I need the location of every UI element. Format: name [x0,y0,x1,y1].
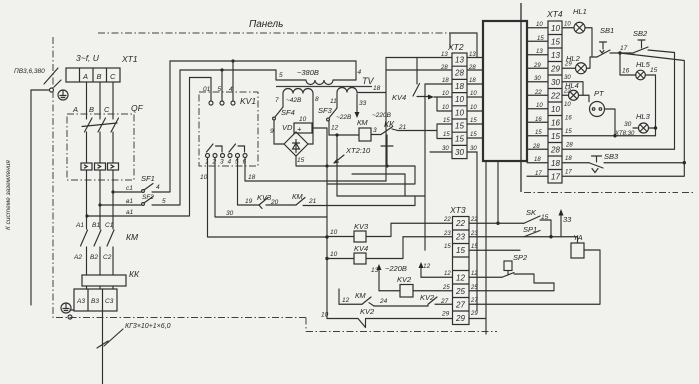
node junction 684 row18 [683,161,686,164]
svg-text:15: 15 [297,157,305,164]
wire SF4 to bridge left [274,120,284,144]
relay KV1 contact group B blade [229,144,236,152]
wire ground to terminal box [70,309,74,311]
wire XT3 22 right to SK [469,222,524,224]
svg-text:22: 22 [550,92,560,101]
node XT4 right wire labels [563,22,573,176]
node KV1 bottom pin 3 [221,154,225,158]
svg-text:22: 22 [443,217,451,223]
svg-text:13: 13 [371,267,379,274]
svg-text:29: 29 [470,311,478,317]
svg-text:Панель: Панель [249,19,283,30]
wire HL1 to SB1 drop [585,28,592,57]
svg-text:10: 10 [330,229,338,236]
thermal contact KK [381,127,393,146]
svg-text:SB1: SB1 [600,26,614,35]
lamp HL1 [574,22,585,33]
svg-text:15: 15 [443,132,450,138]
svg-text:КГ3×10+1×6,0: КГ3×10+1×6,0 [125,323,171,330]
node KV1 top pin 4 [231,101,235,105]
svg-text:27: 27 [470,298,478,304]
wire row 27 to XT3 [435,303,452,305]
wire minus output row [296,156,387,166]
wire XT2 28 feed [386,69,452,71]
wire phase C drop XT1 to QF [112,82,114,119]
svg-text:15: 15 [551,38,560,47]
svg-text:30: 30 [470,146,477,152]
svg-text:18: 18 [469,78,476,84]
wire phase B drop XT1 to QF [99,82,101,119]
breaker SF3 [327,108,337,121]
svg-text:В1: В1 [92,222,100,229]
solenoid YA [571,243,584,258]
node junction bus1 [231,59,234,62]
wire row 28 [562,148,675,150]
wire row 18 [245,180,386,182]
svg-text:7: 7 [275,97,279,104]
svg-text:5: 5 [279,72,283,79]
svg-text:XT4: XT4 [546,9,563,19]
wire panel left dashed boundary [52,37,54,318]
node XT2 left wire labels [440,52,450,152]
wire SF1 to bus1 riser [152,61,170,192]
wire KV1 pin5 drop [237,158,239,206]
svg-text:KV1: KV1 [240,96,256,106]
svg-text:18: 18 [455,82,464,91]
svg-text:КМ: КМ [355,291,366,300]
wire b1 row [100,204,141,206]
wire bus1 to KV1 pin 4 [232,61,234,101]
svg-text:10: 10 [200,174,208,181]
svg-text:C: C [110,72,116,81]
relay KV1 enclosure [199,92,258,166]
svg-text:XT8:30: XT8:30 [614,131,635,137]
wire KV3 coil to XT3 22 [366,223,452,236]
wire riser row 27 [338,289,340,304]
relay KV1 contact group A bar [216,146,223,152]
contactor KM pole A [81,230,88,246]
wire KK hook drop to minus row [386,146,388,166]
svg-text:PT: PT [594,89,605,98]
wire XT3 12 right to SP2 [469,276,502,278]
node KV1 bottom pin 4 [228,154,232,158]
wire row 10 [208,236,328,238]
svg-text:~42В: ~42В [286,97,302,104]
node junction PT row15 [613,134,616,137]
wire XT4 10 to HL1 [562,27,574,29]
svg-text:10: 10 [442,91,449,97]
wire phase A KM to KK [86,247,88,275]
wire row 18 to SB3 [562,162,589,164]
svg-text:A: A [72,105,78,114]
svg-text:QF: QF [131,103,144,113]
svg-text:10: 10 [442,105,449,111]
contact KV2 aux row27 [428,297,437,304]
svg-text:12: 12 [423,263,431,270]
svg-text:15: 15 [471,244,478,250]
breaker QF thermal element A [81,163,92,170]
node junction b1 [98,203,101,206]
wire phase C KM to KK [112,247,114,275]
svg-text:18: 18 [248,174,256,181]
svg-text:В3: В3 [91,298,99,305]
wire link row174 [352,174,405,196]
wire phase B KM to KK [99,247,101,275]
wire KV2 coil to XT3 25 [413,290,452,292]
svg-text:28: 28 [565,143,573,149]
wire XT2 18 feed riser [425,84,452,250]
contact SP1 [524,231,540,237]
contact KM aux [296,198,305,206]
svg-text:30: 30 [534,76,541,82]
svg-text:SP2: SP2 [513,253,528,262]
wire row 15 [562,135,656,137]
svg-text:30: 30 [624,121,632,128]
svg-text:SF3: SF3 [318,106,333,115]
svg-text:30: 30 [226,210,234,217]
svg-text:4: 4 [358,69,362,76]
wire arrow 13 riser [378,268,380,291]
svg-text:21: 21 [308,198,317,205]
wire row 30 [215,216,327,218]
svg-text:10: 10 [455,108,464,117]
wire arrow 12 riser [420,266,422,277]
wire junction to SB2 [622,52,634,54]
svg-text:12: 12 [444,271,451,277]
svg-text:29: 29 [441,311,450,318]
svg-text:9: 9 [270,128,274,135]
svg-text:25: 25 [470,285,478,291]
wire arrow 12 to XT3 12 [421,276,452,278]
svg-text:+: + [297,125,302,134]
wire c1 row [113,191,141,193]
wire XT3 15 right stub [469,249,520,251]
wire loop above XT2 [450,33,477,58]
svg-text:HL4: HL4 [565,81,579,90]
svg-text:с1: с1 [126,185,133,192]
wire pin11 drop [336,93,338,109]
svg-text:18: 18 [551,159,560,168]
svg-text:XT3: XT3 [449,205,466,215]
svg-text:KV2: KV2 [397,275,412,284]
node junction bus2 [220,68,223,71]
breaker SF1 [142,184,153,193]
svg-text:22: 22 [470,217,478,223]
wire KM coil to KK contact [371,134,381,136]
wire SB2 to drop 674 [648,50,675,149]
node XT2 terminal numbers [454,56,464,157]
wire arrow 33 down from winding [356,94,358,114]
svg-text:17: 17 [620,45,628,52]
rectifier plus terminal box [294,123,312,134]
wire PT to row 15 [605,109,616,136]
pushbutton SB2 [634,40,648,53]
svg-text:19: 19 [245,198,253,205]
wire arrow 33 riser [560,214,562,237]
transformer TV secondary 42V winding [283,89,313,94]
svg-text:15: 15 [535,130,542,136]
wire 17 branch drop to row16 [619,53,621,75]
svg-text:15: 15 [650,67,658,74]
wire bus2 [180,69,276,71]
terminal block XT2 [452,53,467,159]
breaker SF4 [273,107,283,120]
svg-text:А2: А2 [73,254,82,261]
svg-text:18: 18 [534,157,541,163]
node junction YA row [549,235,552,238]
wire row 19 segment [238,204,260,206]
svg-text:10: 10 [536,22,543,28]
wire phase B QF mid [99,132,101,163]
svg-text:11: 11 [330,98,337,105]
wire panel bottom dashed boundary right [306,331,497,333]
svg-text:24: 24 [379,298,388,305]
lamp HL2 [576,63,587,74]
breaker QF thermal element C [108,163,119,170]
svg-text:SF4: SF4 [281,108,295,117]
node KV1 top pin 5 [220,101,224,105]
wire grounding down conductor [30,90,32,305]
wire XT4 29 to HL2 [562,67,576,69]
wire SP2 to XT3 25 [469,274,554,291]
wire HL3 to junction 655 [649,127,656,129]
wire feeder to KV4 coil [327,258,354,260]
svg-text:~380В: ~380В [297,68,319,77]
breaker QF thermal element B [95,163,106,170]
svg-text:В2: В2 [90,254,98,261]
lamp HL3 [639,123,649,133]
wire KV1 pin1 drop [207,158,209,238]
wire phases KK to terminal box [87,286,114,289]
wire KV1 pin2 drop [214,158,216,218]
svg-text:SF2: SF2 [142,194,154,201]
svg-text:29: 29 [550,65,560,74]
wire link row196 [337,195,425,197]
node XT4 left wire labels [532,22,544,177]
svg-text:SB2: SB2 [633,29,648,38]
contact SP2 [502,273,514,278]
svg-text:12: 12 [456,274,465,283]
node junction trunk on row22 [496,222,499,225]
node arrow head 13 [377,264,382,270]
svg-text:10: 10 [470,91,477,97]
svg-text:С2: С2 [103,254,112,261]
pushbutton SB3 [589,156,603,173]
svg-text:18: 18 [442,78,449,84]
wire XT4 30 branch [562,82,583,96]
wire SK to junction [540,220,551,237]
transformer TV secondary 22V winding [337,88,357,93]
svg-text:17: 17 [551,173,560,182]
wire bus2 to KV1 pin 5 [221,70,223,101]
svg-text:27: 27 [455,301,465,310]
svg-text:КМ: КМ [126,232,139,242]
breaker QF pole B blade [98,118,106,132]
wire jumper XT2 10 terminals [434,97,452,111]
node junction minus row at 387 [385,164,388,167]
svg-text:10: 10 [455,95,464,104]
wire XT2 13 feed [386,57,452,59]
device PT [590,102,605,117]
svg-text:SK: SK [526,208,537,217]
ground earth symbol bottom [61,303,71,313]
rectifier VD bridge diamond [284,132,308,156]
wire bus1 drop to TV pin 4 [355,61,357,80]
node arrow head 12 [419,262,424,268]
svg-text:4: 4 [228,159,232,166]
wire HL2 riser to SB1 [587,57,598,68]
wire SF2 to bus2 riser [152,70,180,205]
transformer TV core [276,86,372,88]
node junction minus row at 327 [325,164,328,167]
svg-text:16: 16 [551,119,560,128]
svg-text:4: 4 [156,184,160,191]
node grounding contact circle [50,88,54,92]
svg-text:2: 2 [212,159,217,166]
wire phase C QF mid [112,132,114,163]
wire bus2 drop to TV pin 5 [275,70,277,80]
svg-text:10: 10 [551,105,560,114]
wire right panel divider [520,3,522,192]
breaker QF pole C blade [111,118,119,132]
wire phase B QF to KM [99,170,101,229]
svg-text:3: 3 [220,159,224,166]
svg-text:17: 17 [565,170,572,176]
svg-text:23: 23 [443,231,451,237]
node junction feeder at KV4 coil row [325,257,328,260]
node junction 17 [618,51,621,54]
wire SF3 junction drop [336,135,338,196]
transformer TV primary winding [276,80,356,85]
wire phase A QF mid [86,132,88,163]
svg-text:C: C [104,105,110,114]
wire 17 branch diagonal to drop 684 [620,53,684,163]
svg-text:12: 12 [342,297,350,304]
svg-text:13: 13 [536,49,543,55]
cable slash mark [97,341,108,348]
wire row 20 segment [266,204,296,206]
svg-text:HL2: HL2 [566,54,581,63]
svg-text:A: A [82,72,88,81]
svg-text:28: 28 [550,146,560,155]
svg-text:10: 10 [536,103,543,109]
svg-text:10: 10 [321,312,329,319]
svg-text:30: 30 [442,146,449,152]
svg-text:15: 15 [551,132,560,141]
wire bus1 380V top [170,60,356,62]
breaker QF trip bar [82,123,117,127]
svg-text:~220В: ~220В [385,264,407,273]
node junction HL3 [654,126,657,129]
wire SF3 to KM coil row [329,121,359,135]
svg-text:33: 33 [563,215,572,224]
wire XT4 22 to HL4 [562,94,569,96]
svg-text:15: 15 [443,118,450,124]
svg-text:А1: А1 [75,222,84,229]
svg-text:16: 16 [565,116,572,122]
lamp HL4 [569,90,579,100]
node junction feeder at row 10 [325,235,328,238]
contactor KM pole B [94,230,101,246]
svg-text:а1: а1 [126,209,134,216]
svg-text:16: 16 [622,68,630,75]
svg-text:25: 25 [455,287,465,296]
svg-text:3~f, U: 3~f, U [76,53,100,63]
wire 13 to KV2 coil [379,290,400,292]
svg-text:B: B [97,72,102,81]
svg-text:28: 28 [454,69,464,78]
svg-text:30: 30 [551,78,560,87]
svg-text:12: 12 [331,125,339,132]
node XT4 terminal numbers [550,24,560,182]
node junction KM coil row [335,133,338,136]
wire right panel bottom dashed boundary [524,192,695,194]
svg-text:VD: VD [282,123,293,132]
node XT2 right wire labels [468,52,477,152]
relay KV1 contact group B bar [238,146,245,152]
wire trunk drop middle [497,161,499,223]
svg-text:15: 15 [470,118,477,124]
node arrow head 33 [355,112,360,118]
terminal block XT4 [548,21,562,183]
svg-text:15: 15 [455,122,464,131]
wire YA top feed [577,237,579,243]
wire grounding switch blade [54,80,61,87]
wire trunk drop left [476,152,478,311]
svg-text:KV2: KV2 [360,307,375,316]
svg-text:HL5: HL5 [636,60,651,69]
wire row 29 to XT3 [366,318,453,320]
svg-text:30: 30 [455,148,464,157]
contactor KM pole C [107,230,114,246]
svg-text:23: 23 [455,233,465,242]
node XT3 left wire labels [442,217,451,291]
node junction a1 [85,214,88,217]
contact KV2 break row29 [358,319,366,328]
wire KV4 contact riser [416,58,418,85]
wire KV4 coil to XT3 23 [366,237,452,259]
node junction c1 [111,190,114,193]
cable label leader [104,329,123,346]
wire HL3 stub left [633,127,639,129]
svg-text:XT1: XT1 [121,54,138,64]
wire panel top dashed boundary [98,32,462,34]
breaker SF2 [142,197,153,206]
node XT3 terminal numbers [455,219,465,323]
node arrow into XT2 10 [428,95,434,100]
wire panel bottom boundary step [305,318,307,332]
svg-text:18: 18 [565,156,572,162]
wire feeder to KV3 coil [327,236,354,238]
wire pin8 drop to bridge right [308,94,313,145]
svg-text:23: 23 [470,231,478,237]
pressure switch SP2 [504,261,512,275]
pushbutton SB1 [597,42,610,57]
svg-text:С3: С3 [105,298,114,305]
svg-text:22: 22 [455,219,465,228]
node KV1 bottom pin 5 [236,154,240,158]
wire panel bottom dashed boundary left [56,317,306,319]
relay coil KV3 [354,231,366,242]
relay coil KV4 [354,253,366,264]
svg-text:КК: КК [129,269,140,279]
svg-text:HL1: HL1 [573,7,587,16]
svg-text:12: 12 [471,271,478,277]
wire row 29 left segment [327,318,358,320]
contact KV3 [259,198,268,209]
svg-text:15: 15 [565,129,572,135]
wire YA return loop [469,250,600,304]
